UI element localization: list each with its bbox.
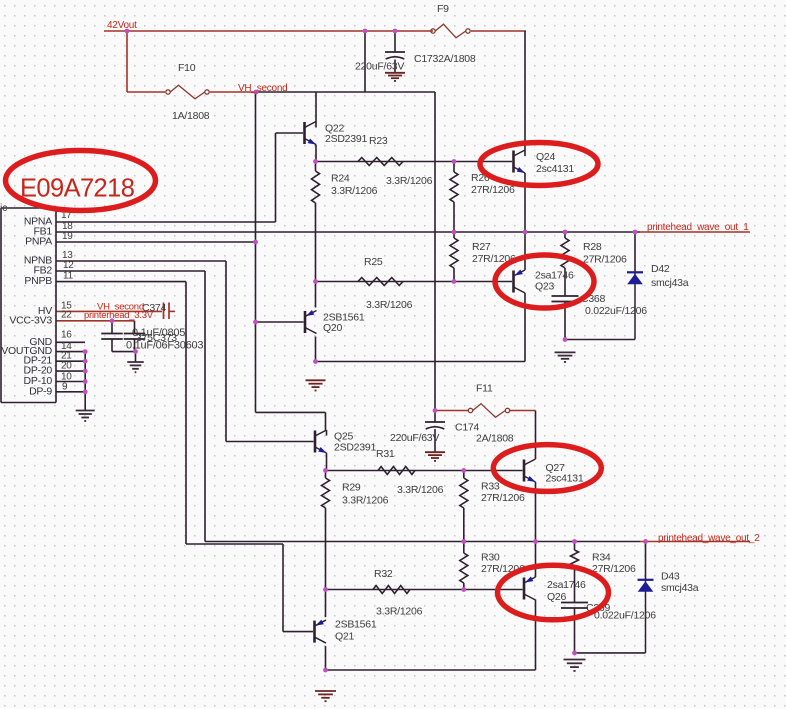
svg-text:3.3R/1206: 3.3R/1206 (397, 484, 444, 496)
svg-text:VCC-3V3: VCC-3V3 (9, 314, 52, 326)
svg-text:3.3R/1206: 3.3R/1206 (386, 175, 433, 187)
svg-text:D43: D43 (661, 571, 680, 583)
svg-text:smcj43a: smcj43a (661, 582, 699, 594)
svg-text:F9: F9 (437, 3, 449, 15)
svg-text:2sc4131: 2sc4131 (546, 473, 584, 485)
svg-text:9: 9 (62, 381, 68, 392)
svg-text:22: 22 (61, 310, 72, 321)
svg-text:PNPA: PNPA (25, 236, 52, 248)
svg-text:F11: F11 (476, 383, 493, 395)
svg-text:F10: F10 (178, 62, 196, 74)
svg-text:R34: R34 (592, 552, 611, 564)
svg-text:3.3R/1206: 3.3R/1206 (366, 299, 413, 311)
svg-text:Q20: Q20 (323, 322, 343, 334)
svg-text:D42: D42 (651, 263, 670, 275)
svg-text:27R/1206: 27R/1206 (471, 184, 515, 196)
svg-text:R30: R30 (481, 552, 500, 564)
svg-text:3.3R/1206: 3.3R/1206 (342, 495, 389, 507)
svg-text:2SD2391: 2SD2391 (325, 133, 367, 145)
svg-text:E09A7218: E09A7218 (20, 175, 135, 203)
svg-text:42Vout: 42Vout (107, 20, 137, 31)
svg-text:220uF/63V: 220uF/63V (390, 432, 439, 444)
svg-text:printehead_wave_out_2: printehead_wave_out_2 (658, 533, 760, 544)
svg-text:3.3R/1206: 3.3R/1206 (376, 606, 423, 618)
svg-text:2SD2391: 2SD2391 (334, 442, 376, 454)
svg-text:27R/1206: 27R/1206 (583, 254, 627, 266)
svg-text:2sa1746: 2sa1746 (547, 579, 586, 591)
svg-text:27R/1206: 27R/1206 (481, 492, 525, 504)
svg-text:Q26: Q26 (547, 591, 567, 603)
svg-text:smcj43a: smcj43a (651, 277, 689, 289)
svg-text:16: 16 (61, 330, 72, 341)
svg-text:R25: R25 (364, 256, 383, 268)
svg-text:2sc4131: 2sc4131 (536, 163, 574, 175)
svg-text:printerhead_3.3V: printerhead_3.3V (84, 310, 154, 321)
svg-text:1A/1808: 1A/1808 (172, 110, 210, 122)
svg-text:VH_second: VH_second (238, 83, 287, 94)
svg-text:0.022uF/1206: 0.022uF/1206 (594, 610, 656, 622)
svg-text:3.3R/1206: 3.3R/1206 (331, 185, 378, 197)
svg-text:PNPB: PNPB (24, 275, 52, 287)
svg-text:0.022uF/1206: 0.022uF/1206 (585, 305, 647, 317)
svg-text:R24: R24 (331, 173, 350, 185)
svg-text:R29: R29 (342, 482, 361, 494)
svg-text:Q21: Q21 (335, 631, 355, 643)
svg-text:20: 20 (61, 361, 72, 372)
svg-text:R23: R23 (369, 135, 388, 147)
svg-text:Q24: Q24 (536, 151, 556, 163)
svg-text:C1732A/1808: C1732A/1808 (414, 53, 476, 65)
svg-text:0.1uF/06F30603: 0.1uF/06F30603 (126, 340, 203, 352)
svg-text:11: 11 (63, 271, 74, 282)
svg-text:Q23: Q23 (535, 281, 555, 293)
svg-text:27R/1206: 27R/1206 (592, 563, 636, 575)
svg-text:R28: R28 (583, 241, 602, 253)
svg-text:12: 12 (63, 260, 74, 271)
svg-text:R27: R27 (472, 241, 491, 253)
svg-text:19: 19 (62, 231, 73, 242)
svg-text:R32: R32 (374, 568, 393, 580)
svg-text:R31: R31 (376, 448, 395, 460)
svg-text:DP-9: DP-9 (29, 385, 52, 397)
svg-text:2A/1808: 2A/1808 (476, 433, 514, 445)
svg-text:ic: ic (0, 202, 7, 214)
svg-text:R33: R33 (481, 481, 500, 493)
svg-text:2SB1561: 2SB1561 (335, 619, 377, 631)
svg-text:printehead_wave_out_1: printehead_wave_out_1 (647, 222, 749, 233)
svg-text:220uF/63V: 220uF/63V (355, 61, 404, 73)
